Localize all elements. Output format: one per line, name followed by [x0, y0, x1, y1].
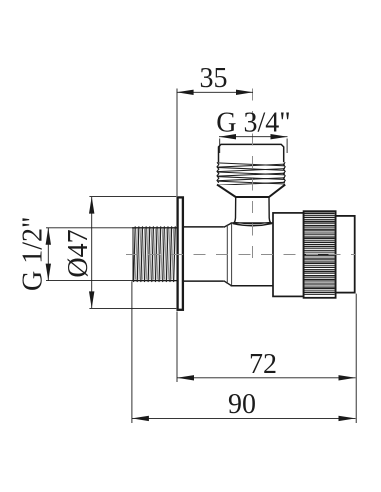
- cone taper below thread: [217, 185, 285, 197]
- central hub of valve body: [227, 223, 273, 286]
- svg-text:90: 90: [228, 389, 256, 420]
- left thread striations: [134, 227, 176, 282]
- wall flange (d47): [178, 197, 183, 309]
- hub chamfer edges: [224, 223, 231, 227]
- top thread right crest zigzag: [283, 162, 285, 182]
- svg-text:35: 35: [200, 63, 228, 94]
- dim d47 extension lines: [89, 196, 176, 198]
- dim G1/2 line: [47, 228, 49, 281]
- horizontal centerline: [126, 254, 355, 256]
- neck walls: [233, 197, 236, 223]
- dim G3/4 line: [219, 136, 288, 138]
- vertical centerline: [252, 89, 254, 263]
- knurl striations: [305, 213, 335, 294]
- dim 72 extension lines: [176, 312, 178, 383]
- dim 35 extension line left: [176, 89, 178, 197]
- top male thread G3/4 body: [219, 144, 284, 185]
- dim G1/2 extension lines: [46, 227, 133, 229]
- dim 90 line: [132, 417, 356, 419]
- knurled handle: [304, 211, 336, 298]
- svg-text:Ø47: Ø47: [63, 229, 94, 277]
- dim G3/4 extension stubs: [219, 139, 221, 154]
- dim 35 line: [177, 91, 253, 93]
- svg-text:G 1/2": G 1/2": [18, 217, 49, 291]
- body tube between flange and hub: [183, 227, 224, 281]
- svg-text:72: 72: [249, 349, 277, 380]
- top thread left crest zigzag: [217, 162, 219, 182]
- svg-text:G 3/4": G 3/4": [216, 108, 290, 139]
- dim d47 line: [91, 197, 93, 309]
- saddle intersection arcs: [233, 224, 272, 226]
- dim 90 extension line left: [131, 281, 133, 423]
- dim 72 line: [177, 377, 356, 379]
- handle end cap: [336, 216, 355, 293]
- bonnet cylinder: [273, 213, 304, 297]
- left male thread G1/2: [132, 228, 177, 281]
- top thread helix lines: [217, 163, 285, 185]
- neck between cone and body hub: [233, 197, 271, 223]
